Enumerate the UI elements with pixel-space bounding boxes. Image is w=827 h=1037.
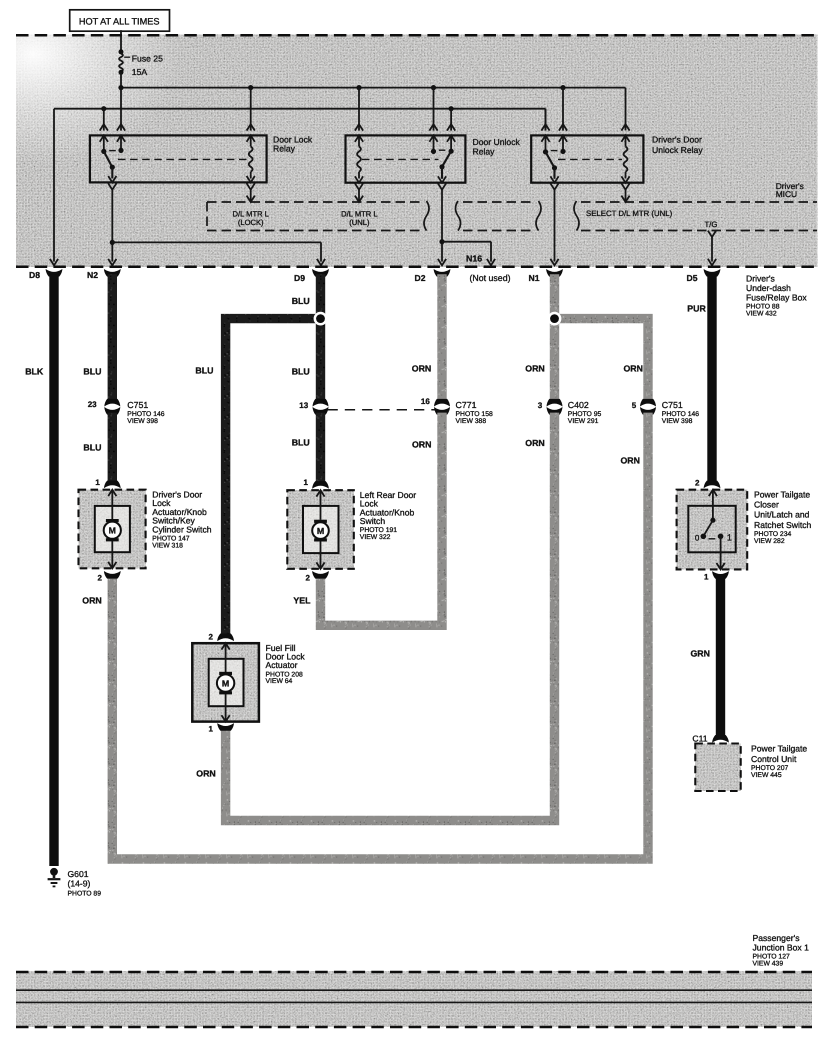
- wire ORN: N1 down to C402 pin 3: [550, 274, 559, 401]
- svg-text:D8: D8: [29, 270, 40, 280]
- cup: fuel fill actuator pin 2: [217, 634, 234, 642]
- wire ORN: D2 to C771 pin 16: [437, 274, 446, 401]
- ground G601: [50, 868, 58, 876]
- wire ORN: branch N1 to C751 pin 5: [555, 319, 649, 401]
- svg-text:N2: N2: [87, 270, 98, 280]
- MICU left dashed edge: [206, 202, 208, 231]
- wire BLU: D9 down with branch to fuel fill actuator: [316, 274, 325, 401]
- relay K1 Door Lock Relay (box): [90, 135, 267, 182]
- svg-text:C11: C11: [692, 734, 707, 744]
- svg-text:M: M: [222, 678, 229, 688]
- svg-text:ORN: ORN: [525, 363, 545, 373]
- terminal D8 pin: [46, 269, 63, 277]
- fork above K3 coil entry: [621, 124, 629, 130]
- wire BLU: C771 pin 13 to left rear actuator pin 1: [316, 413, 325, 484]
- svg-text:2: 2: [97, 573, 102, 582]
- MICU top dashed (part C): [581, 201, 817, 203]
- svg-text:(UNL): (UNL): [349, 218, 370, 227]
- svg-text:HOT AT ALL TIMES: HOT AT ALL TIMES: [79, 16, 160, 26]
- svg-text:VIEW 318: VIEW 318: [152, 542, 183, 549]
- Passenger's Junction Box 1 (shaded strip): [16, 971, 812, 1027]
- svg-text:Unit/Latch and: Unit/Latch and: [754, 510, 810, 520]
- svg-text:(14-9): (14-9): [68, 878, 91, 888]
- terminal N2 pin: [104, 269, 121, 277]
- svg-text:VIEW 388: VIEW 388: [456, 418, 487, 425]
- fuse/relay box top dashed border: [16, 34, 818, 37]
- junction: line2 / door lock relay contact: [101, 106, 106, 111]
- relay K1 switch: [103, 135, 105, 151]
- svg-text:2: 2: [306, 573, 311, 582]
- wire BLU: N2 to C751 pin 23: [108, 274, 117, 401]
- svg-text:N16: N16: [466, 253, 482, 263]
- svg-text:VIEW 291: VIEW 291: [568, 418, 599, 425]
- junction: line1 / door lock relay coil: [248, 85, 253, 90]
- wire: K2 switch output to D2/N16: [438, 183, 446, 189]
- svg-text:Driver's Door: Driver's Door: [652, 135, 702, 145]
- svg-text:ORN: ORN: [412, 363, 432, 373]
- wire GRN: closer unit pin 1 to C11: [712, 571, 729, 579]
- relay K2 coil: [358, 135, 360, 146]
- svg-text:Switch: Switch: [360, 516, 386, 526]
- svg-text:PHOTO 89: PHOTO 89: [68, 891, 102, 898]
- fuse/relay box bottom dashed border: [16, 266, 818, 269]
- junction box bus bar 2: [16, 1001, 812, 1003]
- svg-text:VIEW 432: VIEW 432: [746, 311, 777, 318]
- svg-text:BLU: BLU: [83, 442, 101, 452]
- motor M1: Driver's Door Lock Actuator/Knob Switch/Key Cylinder Switch: [79, 490, 146, 569]
- svg-text:BLU: BLU: [292, 438, 310, 448]
- svg-text:2: 2: [209, 632, 214, 641]
- svg-text:VIEW 322: VIEW 322: [360, 534, 391, 541]
- svg-text:M: M: [317, 526, 324, 536]
- wire: branch to terminal D9: [112, 241, 321, 243]
- wire PUR: D5 to power tailgate closer pin 2: [707, 274, 716, 482]
- wire: line2 down to driver door unlock relay contact: [545, 109, 547, 131]
- MICU top dashed (part B): [463, 201, 534, 203]
- svg-text:Cylinder Switch: Cylinder Switch: [152, 524, 211, 534]
- svg-text:ORN: ORN: [412, 440, 432, 450]
- svg-text:SELECT D/L MTR (UNL): SELECT D/L MTR (UNL): [586, 209, 673, 218]
- wire: fuse to power bus: [120, 72, 122, 87]
- wire: branch to N16 (not used): [442, 241, 491, 243]
- junction: line1 / door unlock relay contact: [431, 85, 436, 90]
- relay K2 switch: [433, 135, 435, 151]
- connector C771 pin 16: [434, 399, 450, 407]
- svg-text:13: 13: [299, 401, 308, 410]
- svg-text:BLK: BLK: [25, 366, 44, 376]
- connector C751 pin 23: [104, 399, 120, 407]
- svg-text:2: 2: [695, 479, 700, 488]
- junction: K1 output branch to D9: [110, 240, 115, 245]
- relay K1 link (dashed): [118, 158, 247, 160]
- wire ORN/YEL: C771 pin 16 down, across to left rear actuator pin 2: [321, 413, 443, 626]
- wire: line2 to relay K3 contact a: [545, 109, 547, 131]
- MICU break squiggle: [574, 201, 579, 231]
- junction: line1 / driver unlock relay contact: [560, 85, 565, 90]
- wire: line2 to relay K2 contact b: [450, 109, 452, 131]
- svg-text:VIEW 439: VIEW 439: [753, 961, 784, 968]
- wire: line1 to relay K2 coil: [358, 88, 360, 131]
- wire BLK: D8 to ground G601: [49, 274, 58, 866]
- svg-text:1: 1: [704, 573, 709, 582]
- svg-text:(LOCK): (LOCK): [238, 218, 264, 227]
- svg-text:VIEW 398: VIEW 398: [662, 418, 693, 425]
- svg-text:ORN: ORN: [196, 769, 216, 779]
- svg-text:C751: C751: [662, 400, 683, 410]
- svg-text:1: 1: [727, 532, 732, 542]
- svg-text:VIEW 282: VIEW 282: [754, 538, 785, 545]
- svg-text:ORN: ORN: [620, 456, 640, 466]
- wire: power bus line 1: [121, 87, 626, 89]
- relay K1 coil: [250, 135, 252, 146]
- junction: K2 output branch to N16: [439, 239, 444, 244]
- svg-text:23: 23: [88, 400, 97, 409]
- svg-text:VIEW 445: VIEW 445: [751, 772, 782, 779]
- junction: fuse / line1: [118, 85, 123, 90]
- junction: line2 / door unlock relay contact 2: [449, 106, 454, 111]
- motor M2: Left Rear Door Lock Actuator/Knob Switch: [287, 490, 354, 569]
- svg-text:Under-dash: Under-dash: [746, 283, 791, 293]
- relay K2 link (dashed): [362, 158, 439, 160]
- svg-text:Actuator: Actuator: [266, 660, 298, 670]
- svg-text:C771: C771: [456, 400, 477, 410]
- wire: MICU T/G output to D5: [708, 231, 716, 237]
- wire ORN: C402 pin 3 down, across, up to fuel fill actuator pin 1 (inner loop): [226, 413, 555, 821]
- svg-text:VIEW 64: VIEW 64: [266, 678, 293, 685]
- terminal D9 pin: [312, 269, 329, 277]
- MICU break squiggle: [424, 201, 429, 231]
- svg-text:3: 3: [538, 401, 543, 410]
- wire: line1 to relay K2 contact a: [433, 88, 435, 131]
- svg-text:BLU: BLU: [292, 366, 310, 376]
- wire: K1 switch output to N2/D9: [108, 183, 116, 189]
- svg-text:0: 0: [695, 533, 700, 542]
- svg-text:ORN: ORN: [82, 596, 102, 606]
- terminal D2 pin: [434, 269, 451, 277]
- connector C771 pin 13: [313, 399, 329, 407]
- wire: line1 down to driver door unlock relay coil: [625, 88, 627, 131]
- wire BLU branch: D9 to fuel fill door lock actuator: [226, 319, 321, 636]
- MICU break squiggle: [536, 201, 541, 231]
- wire: line1 to relay K3 contact b: [562, 88, 564, 131]
- relay K3 switch: [545, 135, 547, 152]
- MICU break squiggle: [456, 201, 461, 231]
- svg-text:Door Unlock: Door Unlock: [473, 137, 521, 147]
- wire: line2 to relay K1 contact a: [103, 109, 105, 131]
- switch arm: [703, 520, 713, 536]
- svg-text:Control Unit: Control Unit: [751, 754, 797, 764]
- switch S1: Power Tailgate Closer Unit/Latch and Ratchet Switch: [677, 490, 748, 570]
- svg-text:BLU: BLU: [195, 366, 213, 376]
- svg-text:Passenger's: Passenger's: [753, 933, 800, 943]
- svg-text:ORN: ORN: [623, 363, 643, 373]
- svg-text:1: 1: [95, 478, 100, 487]
- Driver's under-dash fuse/relay box (shaded region): [16, 35, 818, 268]
- MICU top dashed (part A): [207, 201, 421, 203]
- motor M3: Fuel Fill Door Lock Actuator: [192, 643, 259, 721]
- svg-text:C751: C751: [127, 400, 148, 410]
- svg-text:5: 5: [632, 401, 637, 410]
- wire: HOT bus down to fuse 25: [120, 30, 122, 51]
- svg-text:ORN: ORN: [525, 438, 545, 448]
- svg-text:1: 1: [304, 478, 309, 487]
- svg-text:Fuse/Relay Box: Fuse/Relay Box: [746, 293, 807, 303]
- junction: D9 wire / fuel fill branch: [314, 312, 328, 326]
- svg-text:GRN: GRN: [690, 649, 710, 659]
- svg-text:BLU: BLU: [83, 366, 101, 376]
- svg-text:C402: C402: [568, 400, 589, 410]
- wire: line1 to relay K1 coil: [250, 88, 252, 131]
- U1: Power Tailgate Control Unit (box): [695, 744, 740, 792]
- svg-text:15A: 15A: [132, 67, 148, 77]
- relay K3 Driver's Door Unlock Relay (box): [531, 135, 643, 182]
- dashed tie: C771 pins 13-16: [328, 409, 437, 411]
- svg-text:Unlock Relay: Unlock Relay: [652, 145, 703, 155]
- connector C751 pin 5: [640, 399, 656, 407]
- fuse label leader: [124, 56, 130, 58]
- svg-text:Junction Box 1: Junction Box 1: [753, 943, 810, 953]
- svg-text:D9: D9: [294, 273, 305, 283]
- svg-text:Driver's: Driver's: [746, 274, 775, 284]
- svg-text:VIEW 398: VIEW 398: [127, 418, 158, 425]
- wire: K3 coil to MICU SELECT D/L MTR (UNL): [621, 183, 629, 189]
- relay K2 Door Unlock Relay (box): [346, 135, 466, 182]
- wire ORN: C751 pin 5 down, across, up to door lock actuator pin 2 (outer loop): [112, 413, 648, 859]
- wire BLU: C751 pin 23 to door lock actuator pin 1: [108, 413, 117, 483]
- svg-text:G601: G601: [68, 869, 89, 879]
- junction box top dashed border: [16, 971, 812, 974]
- svg-text:Relay: Relay: [273, 144, 296, 154]
- wire: fuse to relay K1 contact b: [120, 88, 122, 131]
- svg-text:Fuse 25: Fuse 25: [132, 54, 163, 64]
- svg-text:PUR: PUR: [687, 304, 706, 314]
- svg-text:BLU: BLU: [292, 296, 310, 306]
- svg-text:(Not used): (Not used): [469, 273, 510, 283]
- svg-text:Ratchet Switch: Ratchet Switch: [754, 520, 812, 530]
- svg-text:M: M: [109, 525, 116, 535]
- svg-text:Power Tailgate: Power Tailgate: [754, 490, 810, 500]
- junction: N1 wire / branch to C751 pin 5: [548, 312, 562, 326]
- wire: K2 coil to MICU D/L MTR L (UNL): [355, 183, 363, 189]
- relay K3 link (dashed): [558, 158, 622, 160]
- connector C402 pin 3: [547, 399, 563, 407]
- junction box bus bar 1: [16, 989, 812, 991]
- svg-text:Closer: Closer: [754, 500, 779, 510]
- svg-text:Power Tailgate: Power Tailgate: [751, 744, 807, 754]
- junction: line1 / door unlock relay coil: [356, 85, 361, 90]
- junction box bottom dashed border: [16, 1026, 812, 1029]
- svg-text:1: 1: [209, 725, 214, 734]
- svg-text:16: 16: [421, 397, 430, 406]
- svg-text:MICU: MICU: [776, 189, 797, 199]
- svg-text:YEL: YEL: [293, 596, 311, 606]
- fuse F25 15A: [119, 49, 124, 54]
- wire: line2 down to terminal D8: [53, 109, 55, 262]
- relay K3 coil: [625, 135, 627, 146]
- svg-text:N1: N1: [529, 273, 540, 283]
- wire: ground bus line 2 (from D8): [54, 108, 546, 110]
- svg-text:T/G: T/G: [705, 220, 718, 229]
- terminal D5 pin: [704, 269, 721, 277]
- wire: K3 switch output to N1: [550, 183, 558, 189]
- svg-text:D2: D2: [415, 273, 426, 283]
- svg-text:Relay: Relay: [473, 147, 496, 157]
- svg-text:D5: D5: [687, 273, 698, 283]
- terminal N1 pin: [546, 269, 563, 277]
- wire: K1 coil to MICU D/L MTR L (LOCK): [247, 183, 255, 189]
- node: HOT AT ALL TIMES supply: [70, 10, 170, 31]
